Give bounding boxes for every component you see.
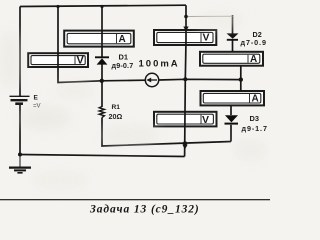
node dot faint link xyxy=(184,15,188,19)
wire battery to bottom rail xyxy=(19,105,21,155)
wire R1 bottom to lower link xyxy=(102,118,231,147)
svg-text:E: E xyxy=(34,95,39,102)
voltmeter V3 bottom xyxy=(154,112,217,127)
node B junction xyxy=(183,77,187,81)
node D junction xyxy=(183,141,187,145)
svg-text:100mA: 100mA xyxy=(139,59,180,70)
svg-text:A: A xyxy=(250,54,257,65)
wire mid rail left of source xyxy=(102,79,146,82)
diode D2 xyxy=(227,33,239,39)
wire faint link top rail to D2 branch xyxy=(186,15,233,17)
wire mid rail right of source xyxy=(159,78,241,81)
node C junction xyxy=(239,77,243,81)
wire D2 branch top xyxy=(232,15,234,34)
svg-text:R1: R1 xyxy=(112,104,121,111)
ammeter A3 right lower xyxy=(201,91,265,105)
node A junction xyxy=(100,79,104,83)
svg-text:D3: D3 xyxy=(250,114,259,123)
voltmeter V1 xyxy=(28,53,88,67)
wire left rail xyxy=(19,7,21,97)
svg-text:A: A xyxy=(252,94,259,105)
svg-text:V: V xyxy=(202,114,209,126)
wire bottom rail xyxy=(20,155,185,157)
arrow terminal below node D xyxy=(182,145,187,150)
svg-text:д7-0.9: д7-0.9 xyxy=(241,38,267,47)
wire A3 bottom to D3 xyxy=(230,105,232,115)
diode D1 xyxy=(95,57,109,64)
ammeter A2 right upper xyxy=(200,52,263,66)
scan mottle xyxy=(0,12,268,188)
svg-text:Задача 13 (с9_132): Задача 13 (с9_132) xyxy=(89,204,200,216)
svg-text:20Ω: 20Ω xyxy=(109,112,123,121)
current source 100mA xyxy=(145,73,158,86)
wire A2 bottom to node C to A3 top xyxy=(240,66,242,92)
resistor R1 xyxy=(99,107,104,118)
svg-text:д9-1.7: д9-1.7 xyxy=(242,124,268,133)
wire D1 to node A xyxy=(101,65,103,108)
svg-text:V: V xyxy=(203,32,210,44)
node dot top rail x102 xyxy=(100,5,103,8)
svg-text:A: A xyxy=(119,34,126,45)
arrow terminal into V2 xyxy=(183,27,188,32)
ammeter A1 top xyxy=(64,31,134,47)
node dot top rail x58 xyxy=(56,5,59,8)
wire V1 branch through box to node A xyxy=(58,7,102,83)
battery E xyxy=(10,96,30,103)
svg-text:V: V xyxy=(77,55,85,67)
wire D3 to lower link xyxy=(230,125,232,142)
voltmeter V2 xyxy=(154,30,216,45)
wire top rail xyxy=(20,5,186,6)
svg-text:д9-0.7: д9-0.7 xyxy=(112,61,134,70)
wire A1 branch through box to D1 xyxy=(101,7,103,58)
ground xyxy=(9,155,31,173)
meter letter cell dividers xyxy=(75,33,250,124)
caption rule xyxy=(0,199,270,200)
diode D3 xyxy=(225,115,239,123)
wire V2-V3 branch through boxes xyxy=(185,5,186,156)
wire D2 to A2 meter xyxy=(232,41,234,53)
node junction ground rail xyxy=(18,153,22,157)
